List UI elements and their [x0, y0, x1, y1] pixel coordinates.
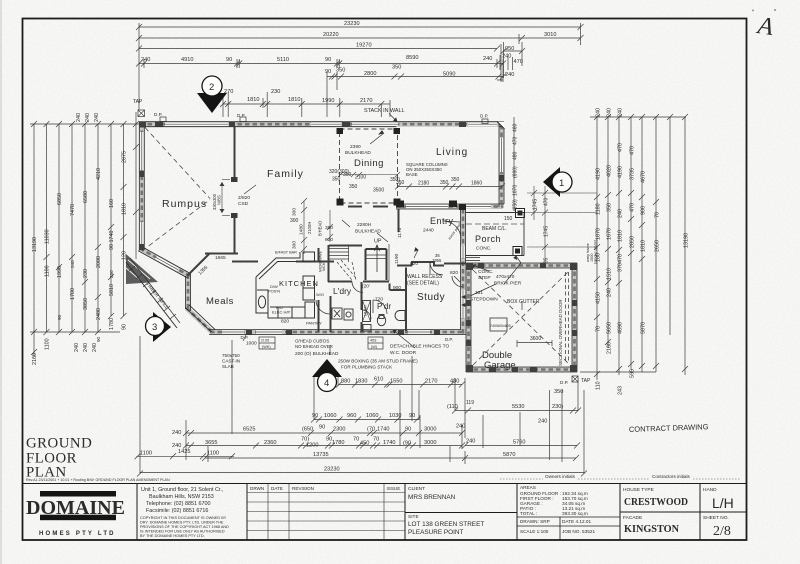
svg-text:4210: 4210 [96, 168, 102, 180]
svg-text:3500: 3500 [373, 188, 384, 194]
timber infill diagonal [126, 262, 177, 328]
svg-text:BASE: BASE [406, 172, 418, 177]
svg-text:2360: 2360 [264, 440, 276, 446]
svg-text:300: 300 [292, 208, 298, 216]
tap symbol top [138, 110, 145, 117]
svg-text:240: 240 [76, 113, 82, 122]
svg-text:PROVISIONS OF THE COPYRIGHT AC: PROVISIONS OF THE COPYRIGHT ACT 1968 AND [140, 525, 229, 529]
svg-text:(SEE DETAIL): (SEE DETAIL) [407, 281, 439, 287]
svg-text:230: 230 [271, 89, 280, 95]
svg-text:4690: 4690 [618, 322, 624, 334]
svg-text:7470: 7470 [70, 204, 76, 216]
svg-text:820: 820 [410, 261, 418, 267]
svg-text:SECTIONAL OVERHEAD DOOR: SECTIONAL OVERHEAD DOOR [558, 299, 563, 366]
svg-text:8590: 8590 [406, 55, 418, 61]
wall: porch/study top [444, 263, 466, 265]
dimension row 90/350/2800/350/5090/240 [327, 76, 503, 78]
owners / contractors initials dotted lines [500, 474, 740, 479]
svg-text:240: 240 [505, 72, 514, 78]
svg-text:B/FAST BAR: B/FAST BAR [275, 251, 297, 255]
laundry fixtures [332, 308, 371, 331]
wall: living right exterior [499, 124, 504, 208]
title block grid [23, 484, 747, 541]
svg-text:1810: 1810 [122, 203, 128, 215]
wall: living bottom exterior [396, 204, 503, 209]
solid corner gable [126, 254, 158, 284]
wm/op boxed labels bottom [259, 337, 383, 349]
svg-text:STEP: STEP [478, 275, 491, 281]
right small dims 950/240/470 [504, 50, 523, 52]
svg-text:SHEET NO.: SHEET NO. [703, 515, 729, 521]
pdr fixtures [377, 311, 405, 326]
wall: bay diagonal upper [140, 249, 190, 277]
svg-text:2080: 2080 [96, 256, 102, 268]
svg-text:LINEN: LINEN [364, 305, 368, 316]
svg-text:119: 119 [466, 400, 474, 406]
svg-text:720: 720 [375, 297, 383, 303]
svg-text:1990: 1990 [57, 266, 63, 278]
svg-text:FOR PLUMBING STACK: FOR PLUMBING STACK [341, 365, 393, 370]
areas cell [517, 485, 620, 540]
svg-text:1100: 1100 [45, 265, 51, 277]
dimension row 20220 / 3010 [139, 37, 581, 39]
wall: hall west [328, 245, 330, 282]
exterior wall gray bands [139, 122, 577, 372]
svg-text:960: 960 [347, 413, 356, 419]
stair rails U shape [366, 249, 387, 280]
extension verticals [138, 23, 140, 117]
svg-text:1780: 1780 [109, 318, 115, 330]
exterior wall edge lines [138, 122, 577, 372]
svg-text:19270: 19270 [356, 43, 372, 49]
wall: pdr north [390, 289, 407, 291]
dimension row 240/4910/90/5110/90/8590/240 [139, 63, 503, 65]
svg-text:1060: 1060 [324, 413, 336, 419]
svg-text:2160: 2160 [607, 342, 613, 354]
svg-text:NO B/HEAD OVER: NO B/HEAD OVER [295, 344, 333, 349]
wall: study/porch east exterior [461, 209, 466, 334]
svg-text:D.P.: D.P. [445, 337, 453, 342]
svg-text:WALL RECESS: WALL RECESS [407, 274, 443, 280]
svg-text:1740: 1740 [383, 440, 395, 446]
svg-text:KITCHEN: KITCHEN [279, 279, 319, 288]
rumpus door nibs [231, 177, 238, 182]
svg-text:Unit 1, Ground floor, 21 Solen: Unit 1, Ground floor, 21 Solent Cr., [141, 487, 224, 493]
svg-text:5870: 5870 [503, 452, 515, 458]
svg-text:CLIENT: CLIENT [408, 486, 425, 492]
svg-text:DETACHABLE HINGES TO: DETACHABLE HINGES TO [390, 344, 449, 350]
svg-text:350: 350 [607, 203, 613, 212]
wall: garage bottom [466, 367, 577, 372]
svg-text:5870: 5870 [641, 322, 647, 334]
client cell [405, 486, 517, 536]
svg-text:90: 90 [319, 425, 325, 431]
top connector line [590, 116, 686, 118]
svg-text:CSD: CSD [238, 201, 249, 207]
row 90/1060/960/1060/1030/90 [314, 419, 419, 421]
row 240/6525/(650)/2300/70/1740 [186, 432, 462, 434]
svg-text:1070: 1070 [513, 185, 519, 196]
DOMAINE logo [26, 491, 125, 537]
svg-text:350: 350 [332, 177, 341, 183]
svg-text:Family: Family [267, 168, 304, 180]
svg-text:6525: 6525 [243, 427, 255, 433]
tick slashes on left columns [31, 121, 139, 127]
svg-text:6580: 6580 [83, 191, 89, 203]
wall: garage left [466, 264, 471, 372]
wall: left exterior [139, 122, 144, 250]
wall: pdr east [389, 284, 391, 291]
svg-text:MRS BRENNAN: MRS BRENNAN [408, 494, 456, 501]
svg-text:JOB NO. 53521: JOB NO. 53521 [562, 529, 595, 534]
svg-text:13190: 13190 [32, 237, 38, 252]
row 23230 bottom [140, 472, 584, 474]
svg-text:NICHE: NICHE [322, 260, 326, 271]
svg-text:(110: (110 [447, 404, 458, 410]
svg-text:SLAB: SLAB [222, 364, 234, 369]
top connector line [30, 123, 139, 125]
svg-text:350: 350 [440, 180, 449, 186]
kitchen pantry east wall [318, 248, 320, 262]
svg-text:240: 240 [618, 108, 624, 117]
svg-text:Rumpus: Rumpus [162, 198, 207, 210]
stair up arrow [376, 246, 378, 272]
svg-text:PANTRY: PANTRY [306, 321, 322, 326]
svg-text:90: 90 [122, 324, 128, 330]
entry columns [396, 201, 466, 211]
svg-text:Facsimile: (02) 8851 6716: Facsimile: (02) 8851 6716 [146, 508, 208, 514]
svg-text:1810: 1810 [618, 230, 624, 242]
wall: kitchen/family [232, 261, 258, 263]
svg-text:2100H: 2100H [307, 222, 312, 234]
svg-text:TOTAL :: TOTAL : [520, 511, 537, 516]
svg-text:1870: 1870 [596, 228, 602, 240]
rotated labels left block [32, 113, 128, 365]
svg-text:460: 460 [513, 123, 519, 132]
svg-text:23230: 23230 [344, 21, 360, 27]
dim row under living [395, 184, 505, 190]
svg-text:90: 90 [325, 57, 331, 63]
svg-text:Owners initials: Owners initials [545, 474, 576, 479]
dining nib columns [337, 128, 401, 206]
marker 2 top [197, 93, 227, 113]
dim cluster dining [290, 169, 400, 224]
vertical dim lines [33, 124, 35, 357]
svg-text:O.05: O.05 [261, 339, 269, 343]
title block [23, 422, 747, 540]
section markers [146, 76, 573, 392]
svg-text:240: 240 [502, 54, 511, 60]
svg-text:453: 453 [370, 339, 376, 343]
svg-text:W.C. DOOR: W.C. DOOR [390, 350, 417, 356]
svg-text:HAND: HAND [703, 487, 717, 493]
dimension row 19270 [139, 48, 497, 50]
svg-text:240: 240 [172, 430, 181, 436]
svg-text:SCALE 1:100: SCALE 1:100 [520, 529, 549, 534]
svg-text:BOX GUTTER: BOX GUTTER [507, 299, 540, 305]
wall: family/entry boundary below dining [348, 206, 388, 208]
svg-text:1: 1 [559, 178, 564, 189]
wall: meals diagonal [187, 254, 209, 276]
svg-text:(W): (W) [371, 345, 378, 349]
window lighter segments on walls [142, 124, 502, 332]
bottom dim labels [140, 377, 591, 473]
leader arrows [243, 114, 522, 356]
svg-text:820: 820 [281, 319, 289, 325]
svg-text:1565: 1565 [215, 255, 226, 261]
svg-text:W/O: W/O [316, 292, 324, 297]
dimension row 23230 [139, 26, 581, 28]
svg-text:240: 240 [483, 56, 492, 62]
svg-text:4190: 4190 [618, 166, 624, 178]
svg-text:4: 4 [324, 378, 329, 389]
svg-text:350: 350 [451, 177, 460, 183]
svg-text:CONC.: CONC. [476, 246, 491, 252]
row 5760 [465, 445, 577, 447]
porch piers [516, 209, 525, 218]
dimension labels top [133, 21, 556, 119]
svg-text:110: 110 [596, 381, 602, 390]
svg-text:595: 595 [630, 369, 636, 378]
svg-text:470: 470 [618, 143, 624, 152]
svg-text:TAP: TAP [581, 378, 591, 384]
svg-text:ELEC H/P: ELEC H/P [272, 310, 291, 315]
svg-text:2440: 2440 [423, 228, 434, 234]
svg-text:3000: 3000 [424, 427, 436, 433]
svg-text:(90: (90 [403, 441, 411, 447]
svg-text:REVISION: REVISION [292, 486, 314, 491]
svg-text:D.P.: D.P. [154, 112, 162, 117]
svg-text:480: 480 [450, 379, 459, 385]
house type cell [620, 487, 747, 535]
svg-text:90: 90 [312, 413, 318, 419]
svg-text:3735: 3735 [630, 168, 636, 180]
study door 2 [452, 276, 463, 287]
svg-text:70: 70 [353, 437, 359, 443]
svg-text:FACADE: FACADE [623, 515, 642, 521]
svg-text:90: 90 [226, 57, 232, 63]
near-plan vertical dim line right of living [513, 117, 515, 210]
svg-text:P'dr: P'dr [377, 302, 391, 311]
wall: ldry/pdr [361, 282, 363, 310]
svg-text:1180: 1180 [596, 203, 602, 215]
svg-text:240: 240 [596, 108, 602, 117]
wall: bay diagonal lower [187, 308, 214, 333]
svg-text:470: 470 [544, 197, 550, 206]
porch-side dim lines [522, 186, 597, 265]
svg-text:Porch: Porch [475, 234, 501, 244]
wall: bottom exterior [210, 330, 463, 335]
bottom dimension rows [135, 336, 592, 477]
svg-text:L/H: L/H [712, 495, 734, 511]
svg-text:230: 230 [83, 269, 89, 278]
garage niche box [490, 318, 507, 331]
wall: garage top [466, 263, 577, 268]
svg-text:900: 900 [641, 206, 647, 215]
svg-text:470: 470 [630, 203, 636, 212]
svg-text:3600: 3600 [530, 336, 541, 342]
svg-text:D.P.: D.P. [480, 114, 488, 119]
dp marks on top wall [160, 117, 488, 124]
svg-text:1780: 1780 [332, 440, 344, 446]
svg-text:240: 240 [456, 424, 465, 430]
svg-text:90: 90 [57, 314, 62, 320]
svg-text:5110: 5110 [277, 57, 289, 63]
svg-text:350: 350 [343, 172, 352, 178]
svg-text:2170: 2170 [425, 379, 437, 385]
svg-text:1100: 1100 [140, 450, 152, 456]
svg-text:240: 240 [94, 113, 100, 122]
dimension row 270/1810/230/1810/1990/2170 [223, 103, 390, 105]
wall: garage right [572, 264, 577, 372]
svg-text:13735: 13735 [313, 452, 329, 458]
svg-text:Telephone: (02) 8851 6700: Telephone: (02) 8851 6700 [146, 501, 210, 507]
svg-text:B'HEAD: B'HEAD [318, 221, 323, 236]
svg-text:Living: Living [436, 147, 468, 158]
stair enclosure [329, 245, 362, 247]
svg-text:200 (O) BULKHEAD: 200 (O) BULKHEAD [295, 351, 339, 357]
row 1100/1425/1100 [137, 455, 235, 457]
svg-text:240: 240 [538, 419, 547, 425]
drawing title GROUND FLOOR PLAN [26, 436, 92, 481]
bottom connectors right block [580, 371, 656, 373]
svg-text:Baulkham Hills, NSW 2153: Baulkham Hills, NSW 2153 [149, 494, 214, 500]
dining dashed bulkhead box [340, 129, 398, 203]
svg-text:1060: 1060 [366, 413, 378, 419]
svg-text:350: 350 [325, 225, 333, 231]
garage dashed X [473, 270, 570, 365]
svg-text:240: 240 [85, 113, 91, 122]
svg-text:1810: 1810 [288, 97, 300, 103]
svg-text:90: 90 [325, 69, 331, 75]
marker 3 left [153, 312, 171, 342]
svg-text:393.30 sq.m: 393.30 sq.m [562, 511, 588, 516]
svg-text:CRESTWOOD: CRESTWOOD [624, 496, 688, 508]
svg-text:450: 450 [360, 441, 369, 447]
timber infill outrigger bottom-left [126, 254, 180, 328]
svg-text:240: 240 [607, 108, 613, 117]
svg-text:2280H: 2280H [357, 222, 372, 228]
svg-text:90: 90 [409, 413, 415, 419]
svg-text:300: 300 [290, 218, 299, 224]
svg-text:1480: 1480 [299, 224, 305, 235]
svg-text:23230: 23230 [324, 467, 340, 473]
svg-text:TAP: TAP [133, 99, 143, 105]
svg-text:900: 900 [393, 285, 401, 291]
svg-text:750x750: 750x750 [222, 353, 240, 358]
svg-text:1740: 1740 [377, 427, 389, 433]
svg-text:1190: 1190 [394, 253, 400, 264]
svg-text:5810: 5810 [109, 284, 115, 296]
svg-text:160: 160 [109, 199, 115, 208]
svg-text:1745: 1745 [533, 199, 539, 210]
exterior wall brick dashes [140, 123, 577, 371]
svg-text:370470: 370470 [618, 254, 624, 272]
svg-text:DRWN: DRWN [250, 486, 264, 491]
kitchen benches [256, 252, 315, 318]
svg-text:HOUSE TYPE: HOUSE TYPE [623, 487, 654, 493]
svg-text:2100: 2100 [355, 175, 366, 181]
svg-text:2180: 2180 [418, 181, 429, 187]
svg-text:470x470: 470x470 [496, 274, 515, 280]
svg-text:Dining: Dining [354, 158, 384, 169]
svg-text:250W BOXING (35 AM STUD F: 250W BOXING (35 AM STUD FRAME) [338, 359, 418, 364]
plan annotations [197, 144, 563, 370]
svg-text:4910: 4910 [181, 57, 193, 63]
garage 3600 dim [517, 340, 552, 347]
svg-text:1670: 1670 [607, 228, 613, 240]
svg-text:5090: 5090 [443, 72, 455, 78]
svg-text:1955: 1955 [432, 258, 442, 263]
svg-text:BULKHEAD: BULKHEAD [345, 150, 371, 156]
svg-text:150: 150 [504, 216, 513, 222]
svg-text:3850: 3850 [83, 298, 89, 310]
svg-text:1200: 1200 [306, 443, 318, 449]
svg-text:D.P.: D.P. [560, 380, 568, 385]
svg-text:2650: 2650 [655, 240, 661, 252]
door arcs [316, 221, 463, 319]
svg-text:Entry: Entry [430, 216, 454, 226]
svg-text:1100: 1100 [207, 450, 219, 456]
svg-text:6850: 6850 [57, 193, 63, 205]
study door from hall [430, 262, 443, 275]
svg-text:230: 230 [109, 270, 114, 278]
svg-text:DATE: DATE [271, 486, 283, 491]
svg-text:70: 70 [596, 326, 602, 332]
svg-text:610: 610 [374, 377, 383, 383]
svg-text:BRICK PIER: BRICK PIER [494, 281, 522, 287]
svg-text:Contractors initials: Contractors initials [652, 474, 690, 479]
hand / sheet cell [703, 487, 734, 539]
svg-text:230): 230) [552, 404, 563, 410]
svg-text:(650: (650 [302, 427, 313, 433]
garage sectional door dashed [568, 272, 570, 363]
svg-text:1170: 1170 [397, 227, 403, 238]
svg-text:1030: 1030 [389, 413, 401, 419]
stair treads [329, 244, 389, 281]
svg-text:COPYRIGHT IN THIS DOCUMENT IS: COPYRIGHT IN THIS DOCUMENT IS OWNED BY [140, 516, 227, 520]
svg-text:2800: 2800 [364, 71, 376, 77]
wall: entry west [398, 209, 400, 232]
svg-text:240: 240 [141, 57, 150, 63]
svg-text:Garage: Garage [484, 360, 516, 371]
right dimension columns [513, 108, 690, 395]
svg-text:350: 350 [336, 68, 345, 74]
svg-text:UP: UP [374, 239, 382, 245]
svg-text:950: 950 [505, 46, 514, 52]
porch slab outline [466, 213, 524, 256]
marker 1 right [543, 167, 560, 197]
svg-text:Rev.A1 23/11/2001 + 10.01 + R: Rev.A1 23/11/2001 + 10.01 + Routing B/W:… [26, 478, 170, 482]
svg-text:DATE 4.12.01: DATE 4.12.01 [562, 519, 591, 524]
svg-text:70: 70 [655, 212, 661, 218]
floor plan walls [126, 114, 577, 373]
svg-text:470: 470 [513, 136, 519, 145]
svg-text:KINGSTON: KINGSTON [624, 523, 679, 535]
vertical dim chain in family [301, 198, 333, 254]
svg-text:2875: 2875 [122, 151, 128, 163]
svg-text:70: 70 [373, 437, 379, 443]
svg-text:DRY. DOMAINE HOMES PTY. LTD. U: DRY. DOMAINE HOMES PTY. LTD. UNDER THE [140, 521, 224, 525]
svg-text:240: 240 [92, 343, 98, 352]
row 880/1830/610 under study [339, 384, 462, 386]
svg-text:STACK IN WALL: STACK IN WALL [364, 108, 404, 114]
svg-text:240: 240 [74, 343, 80, 352]
svg-text:1100: 1100 [45, 338, 51, 350]
svg-text:1510: 1510 [607, 268, 613, 280]
svg-text:BY THE DOMAINE HOMES PTY LTD.: BY THE DOMAINE HOMES PTY LTD. [140, 534, 205, 538]
svg-text:CAST-IN: CAST-IN [222, 359, 240, 364]
